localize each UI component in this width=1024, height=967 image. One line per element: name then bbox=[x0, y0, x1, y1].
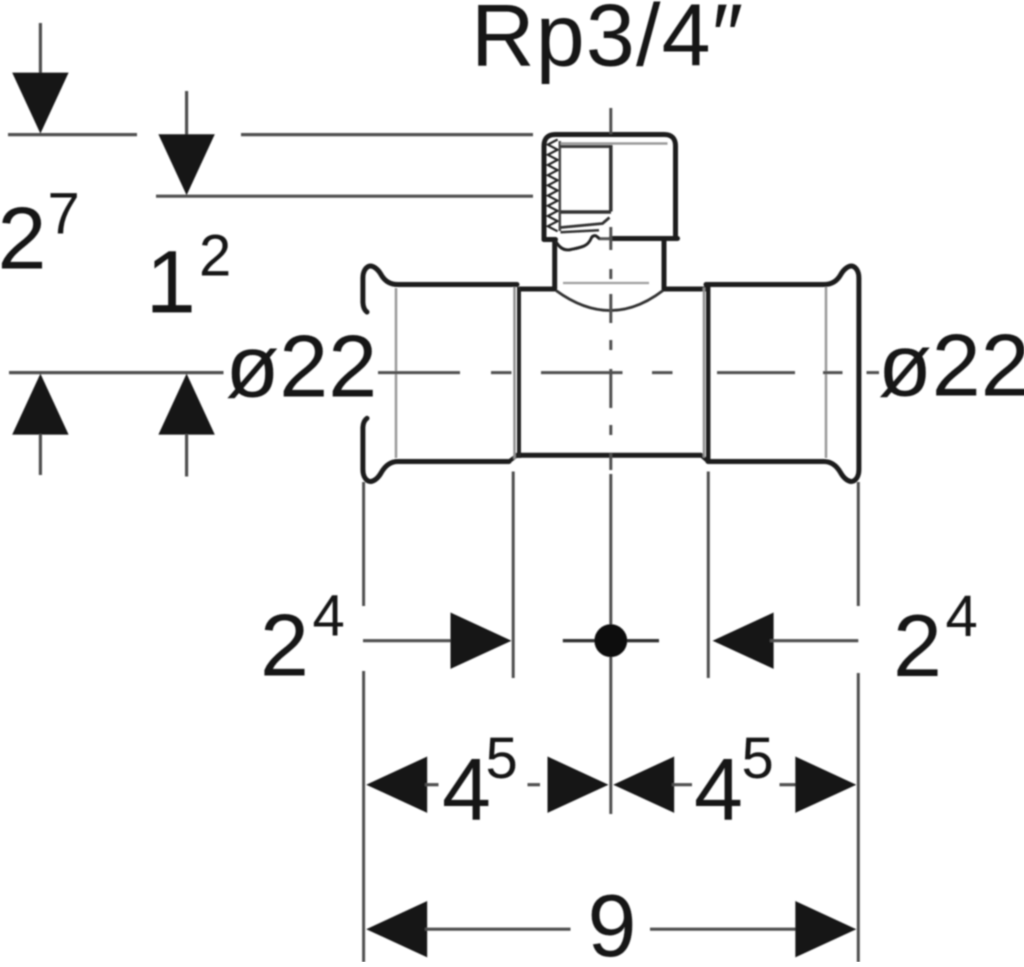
svg-text:4: 4 bbox=[442, 740, 491, 839]
dimension arrow up 2 bbox=[158, 374, 214, 435]
right press bead bbox=[824, 266, 859, 481]
branch neck right wall bbox=[662, 239, 667, 290]
svg-text:2: 2 bbox=[199, 224, 231, 289]
horizontal centerline bbox=[9, 371, 879, 374]
svg-text:2: 2 bbox=[0, 189, 46, 288]
inner shoulder thin line bbox=[561, 142, 668, 145]
svg-text:4: 4 bbox=[946, 584, 978, 649]
svg-text:5: 5 bbox=[486, 726, 518, 791]
dimension arrow up 1 bbox=[12, 374, 68, 435]
dimension row 9 bbox=[366, 901, 427, 957]
top dimension extension lines bbox=[8, 135, 533, 197]
socket depth inner lines bbox=[513, 287, 516, 459]
fitting body top edge bbox=[396, 285, 824, 290]
branch neck left wall bbox=[552, 240, 557, 290]
extension lines below fitting bbox=[364, 472, 859, 963]
dimension row 4^5 left bbox=[366, 757, 427, 813]
thread hatch zigzag bbox=[548, 140, 558, 232]
dimension row 4^5 right bbox=[613, 757, 674, 813]
thread runout lines bbox=[561, 218, 610, 228]
svg-text:2: 2 bbox=[893, 596, 942, 695]
vertical centerline bbox=[609, 108, 612, 470]
dimension row 2^4 left bbox=[363, 639, 452, 642]
center dot marker bbox=[563, 639, 659, 642]
bead/barrel thin boundary lines bbox=[395, 288, 398, 458]
svg-text:2: 2 bbox=[260, 596, 309, 695]
bore edge on centerline bbox=[609, 145, 613, 212]
bore bottom bbox=[561, 210, 612, 214]
left press bead (with mouth gap for ø22 label halo) bbox=[363, 266, 398, 312]
svg-text:9: 9 bbox=[588, 876, 637, 962]
svg-text:7: 7 bbox=[48, 182, 80, 247]
socket bottom shoulder right bbox=[611, 236, 678, 241]
saddle arc bbox=[556, 291, 663, 311]
svg-text:ø22: ø22 bbox=[878, 316, 1024, 415]
break wave in neck bbox=[555, 236, 599, 250]
fitting body bottom edge bbox=[396, 455, 824, 461]
thread crest line bbox=[559, 141, 562, 231]
svg-text:Rp3/4″: Rp3/4″ bbox=[471, 0, 744, 85]
dimension arrow down 1 bbox=[39, 23, 42, 75]
socket bottom shoulder left bbox=[544, 237, 556, 242]
dimension arrow down 2 bbox=[185, 91, 188, 139]
svg-text:5: 5 bbox=[742, 726, 774, 791]
svg-text:1: 1 bbox=[146, 232, 195, 331]
threaded socket Rp3/4 outline bbox=[544, 135, 676, 240]
svg-text:ø22: ø22 bbox=[226, 316, 378, 415]
svg-text:4: 4 bbox=[313, 584, 345, 649]
svg-text:4: 4 bbox=[694, 740, 743, 839]
thin line across neck bbox=[563, 282, 649, 284]
dimension row 2^4 right bbox=[713, 613, 774, 669]
